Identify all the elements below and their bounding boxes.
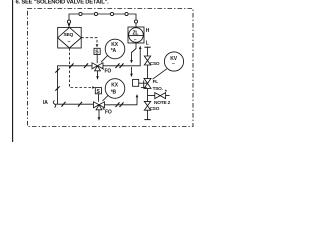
label FO (valve B)	[103, 108, 105, 110]
air line valve B to actuator riser	[105, 97, 138, 105]
label FO (valve A)	[102, 68, 104, 70]
line break mark	[78, 102, 82, 107]
pipe end cap (bottom)	[144, 119, 150, 121]
position light ZL (circle in square)	[128, 27, 144, 43]
svg-text:TSO.: TSO.	[153, 86, 163, 91]
svg-text:6. SEE "SOLENOID VALVE DETAIL: 6. SEE "SOLENOID VALVE DETAIL".	[16, 0, 110, 6]
svg-text:L: L	[146, 40, 149, 46]
branch line with valve (NOTE 2)	[148, 95, 170, 97]
svg-text:–: –	[68, 39, 71, 45]
svg-text:–: –	[172, 61, 175, 67]
line break mark	[62, 102, 66, 107]
leader KV to valve	[153, 69, 167, 79]
vent arrow below valve A	[97, 71, 99, 77]
3-way solenoid valve A	[92, 63, 103, 71]
svg-text:*B: *B	[111, 90, 117, 96]
block valve CSO (upper)	[144, 56, 150, 65]
svg-text:NOTE 2: NOTE 2	[154, 100, 171, 106]
ZL signal line with jog and arrows	[132, 43, 137, 60]
svg-text:FL: FL	[153, 79, 159, 84]
IA branch vertical	[58, 66, 93, 104]
drawing frame border (left edge)	[12, 0, 14, 142]
arrowhead up to actuator	[136, 94, 139, 97]
arrowhead into logic box	[68, 24, 71, 27]
block valve CSO (lower)	[144, 101, 150, 110]
node circle on right drop	[134, 20, 137, 23]
arrowhead up to ZL area	[139, 46, 142, 49]
air line valve A to riser	[103, 49, 140, 66]
svg-text:CSO: CSO	[150, 106, 160, 111]
piston actuator box	[133, 79, 139, 86]
note 6 text (clipped at top)	[16, 0, 110, 6]
svg-text:ZL: ZL	[133, 30, 139, 36]
pipe end cap (top)	[144, 46, 150, 48]
svg-text:SEQ: SEQ	[64, 32, 74, 38]
line break mark	[84, 63, 88, 68]
valve KV with piston actuator, FL TSO	[133, 78, 151, 88]
line break mark	[55, 68, 59, 72]
IA supply line (horizontal)	[56, 103, 94, 105]
node circle 1	[79, 12, 82, 15]
detail boundary box (dash-dot)	[28, 9, 194, 127]
svg-text:CSO: CSO	[150, 61, 160, 66]
svg-text:FO: FO	[105, 109, 112, 115]
svg-text:KX: KX	[111, 42, 118, 48]
line break marks on air line	[116, 63, 120, 68]
actuator stem and tee	[139, 82, 148, 84]
wire: signal header line with nodes	[69, 14, 136, 27]
leader KX*B to valve B	[103, 96, 109, 102]
squiggle connector	[53, 101, 56, 108]
instrument bubble KV	[164, 52, 183, 71]
node circle 4	[125, 12, 128, 15]
logic box SEQ (square with inscribed diamond)	[58, 27, 81, 48]
svg-text:IA: IA	[43, 100, 48, 106]
instrument bubble KX *A	[105, 39, 125, 59]
svg-text:*A: *A	[111, 48, 117, 54]
svg-text:H: H	[146, 28, 150, 34]
node circle 2	[94, 12, 97, 15]
svg-text:FO: FO	[105, 69, 112, 75]
line break mark	[70, 63, 74, 68]
solenoid actuator S (top)	[94, 48, 100, 63]
vent arrow below valve B	[98, 110, 100, 118]
pipe riser (right column)	[147, 47, 149, 119]
dashed signal: logic box bottom to solenoid S-B	[69, 48, 92, 88]
svg-text:KX: KX	[111, 83, 118, 89]
instrument bubble KX *B	[105, 79, 125, 99]
dashed signal: logic box right to solenoid S-A	[81, 38, 97, 45]
svg-text:–: –	[134, 37, 137, 43]
node circle on left drop	[67, 20, 70, 23]
line break marks	[116, 102, 120, 107]
line break mark	[55, 86, 59, 90]
3-way solenoid valve B	[94, 102, 105, 110]
leader KX*A to valve A	[101, 56, 108, 63]
node circle 3	[110, 12, 113, 15]
solenoid actuator S (bottom)	[95, 88, 101, 102]
